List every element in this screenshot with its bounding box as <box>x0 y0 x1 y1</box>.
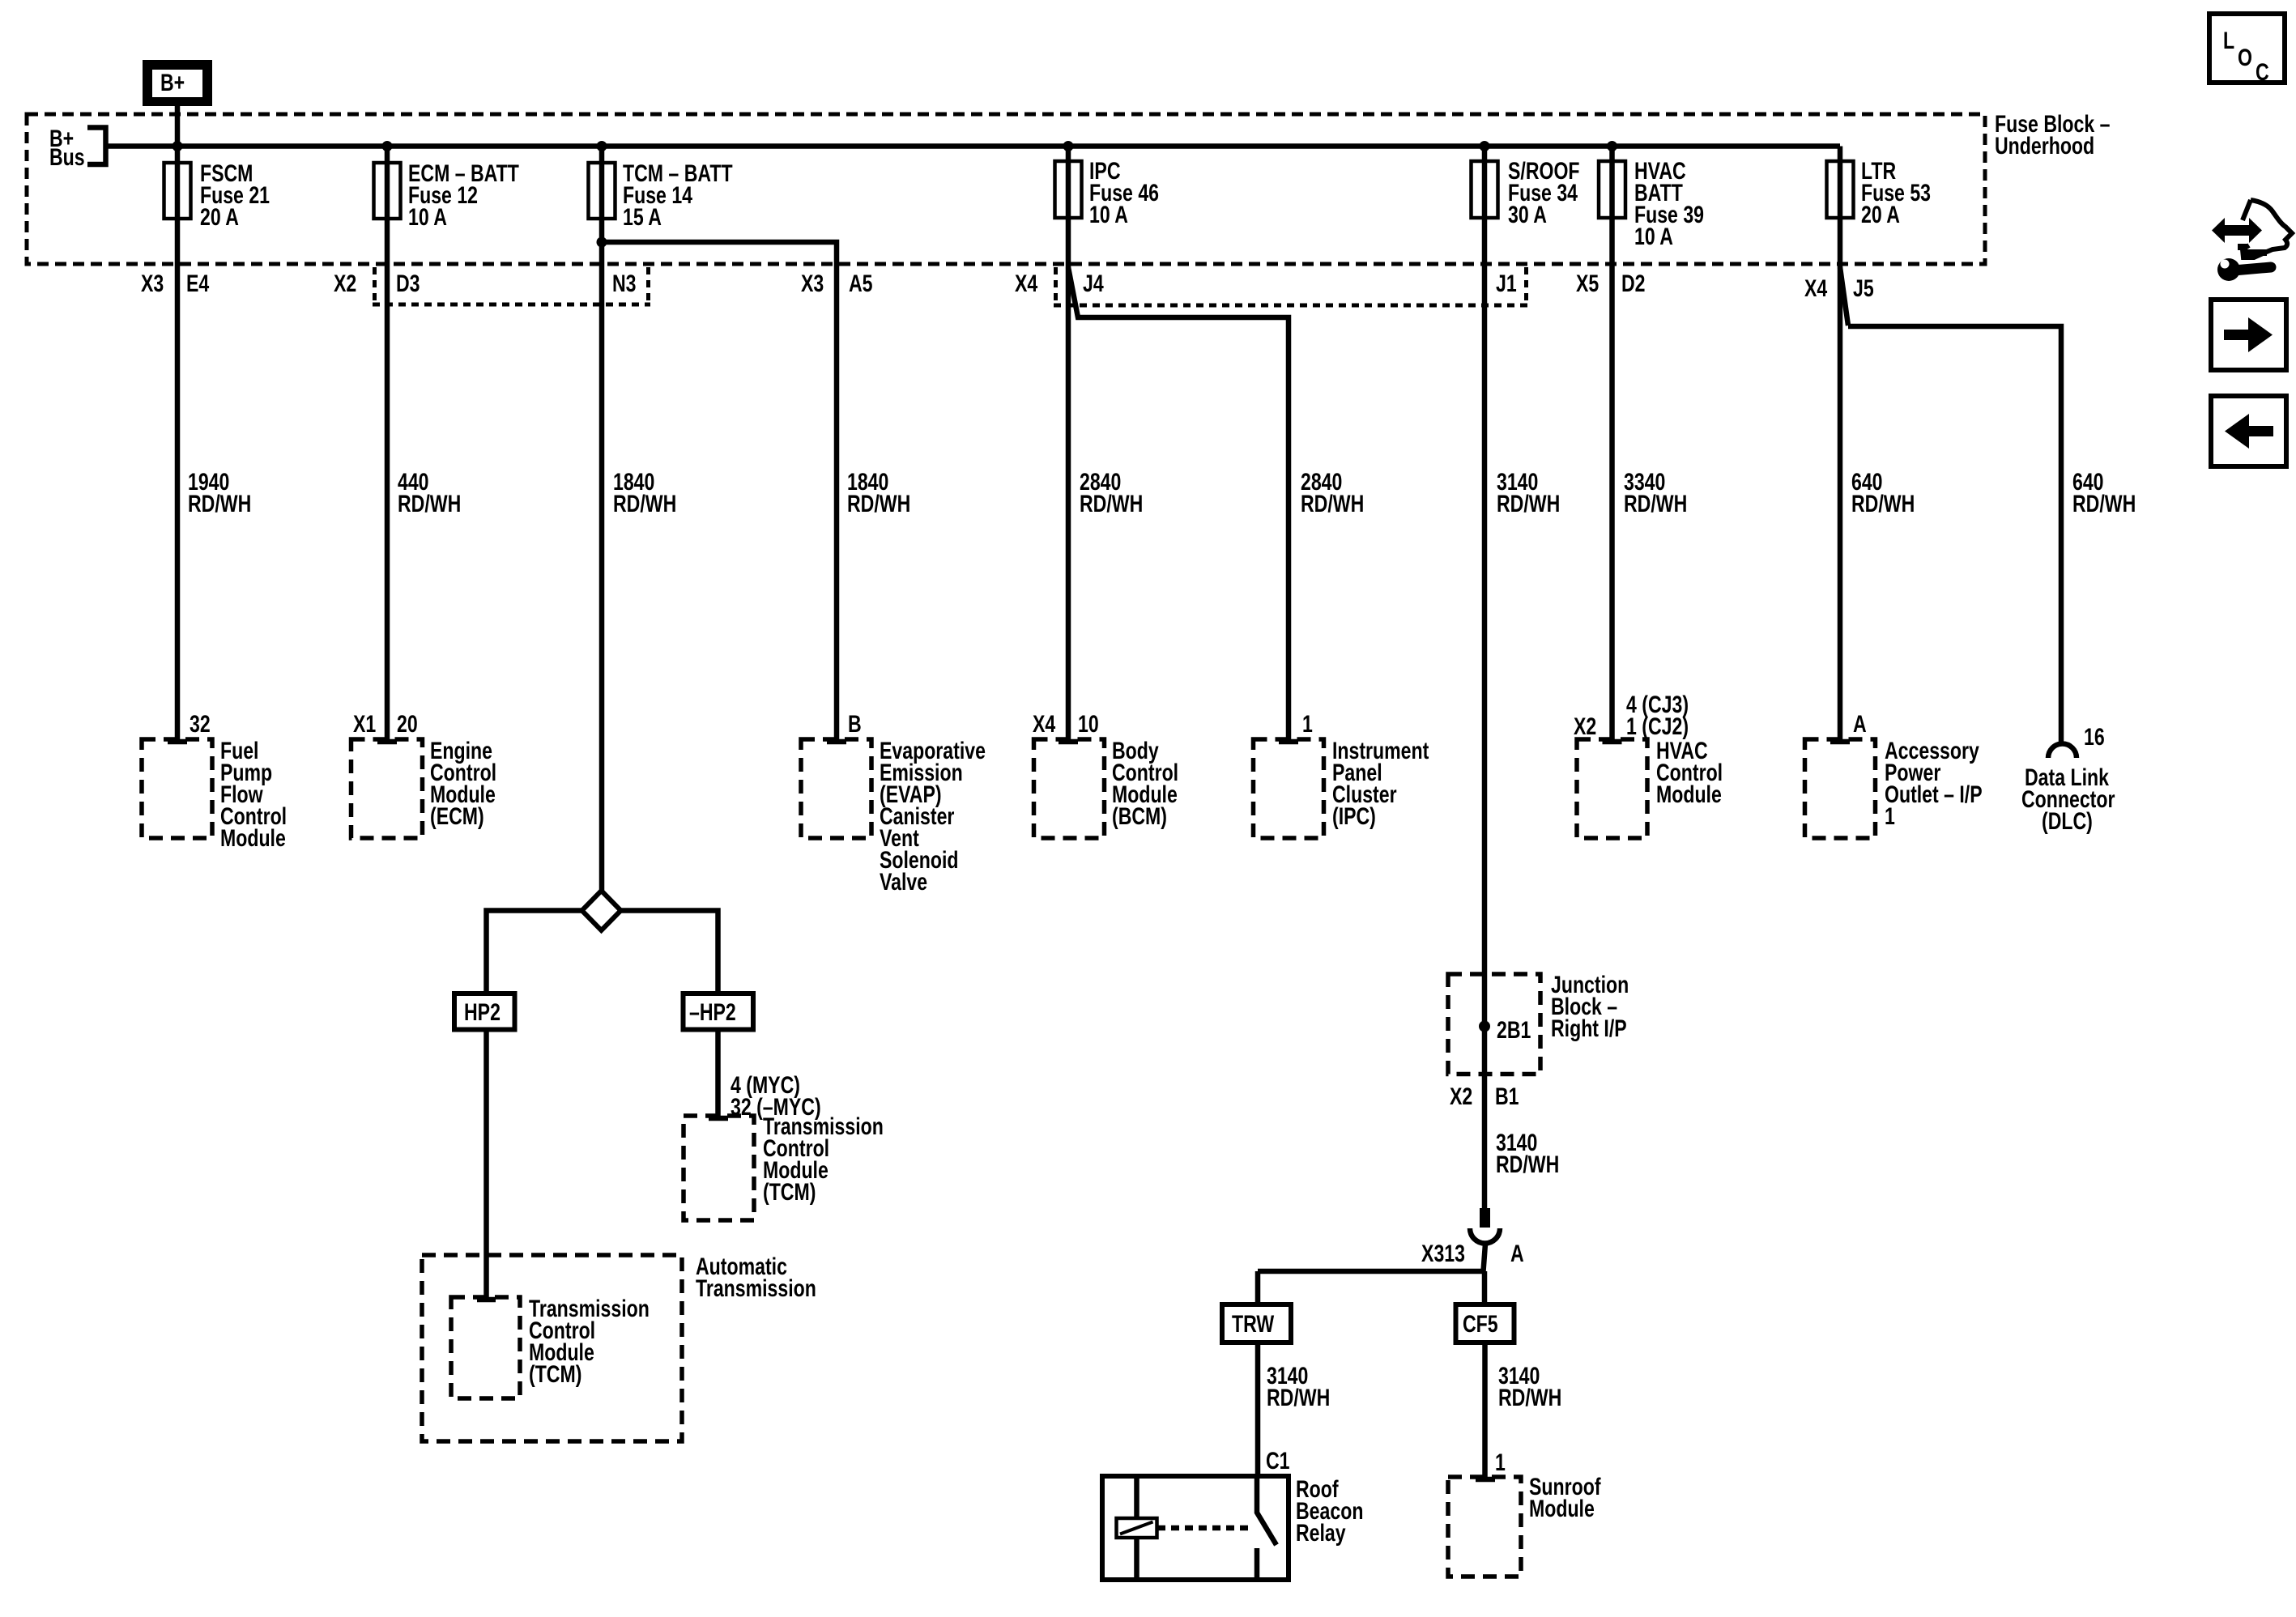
wire IPC 2840 RD/WH <box>1066 147 1071 743</box>
wire -HP2 to TCM <box>715 1030 721 1119</box>
wire IPC cluster branch <box>1068 267 1289 742</box>
wire FSCM 1940 RD/WH <box>175 147 181 743</box>
svg-text:2B1: 2B1 <box>1497 1016 1531 1044</box>
svg-text:RD/WH: RD/WH <box>847 490 910 517</box>
svg-text:Right I/P: Right I/P <box>1551 1015 1627 1042</box>
svg-text:30 A: 30 A <box>1508 201 1547 228</box>
svg-text:Bus: Bus <box>49 143 85 171</box>
svg-text:RD/WH: RD/WH <box>613 490 676 517</box>
label Fuse Block - Underhood <box>1995 110 2111 160</box>
svg-text:10: 10 <box>1078 710 1099 738</box>
svg-text:L: L <box>2223 27 2234 54</box>
svg-text:20 A: 20 A <box>200 203 239 231</box>
pin X2 D3 <box>334 270 420 297</box>
svg-text:N3: N3 <box>612 270 637 297</box>
wire LTR 640 RD/WH <box>1838 147 1843 743</box>
wire label 3140 RD/WH CF5 <box>1498 1362 1561 1411</box>
node TCM branch <box>597 237 607 248</box>
svg-text:A: A <box>1510 1240 1524 1267</box>
svg-text:Module: Module <box>1656 781 1722 808</box>
splice diamond <box>582 891 621 930</box>
wire HVAC 3340 RD/WH <box>1609 147 1615 743</box>
svg-text:X4: X4 <box>1804 274 1827 302</box>
svg-text:X4: X4 <box>1033 710 1055 738</box>
svg-text:X4: X4 <box>1015 270 1037 297</box>
module Engine Control Module (ECM) <box>351 737 497 838</box>
svg-text:RD/WH: RD/WH <box>1496 1151 1559 1178</box>
node TCM tap <box>597 141 607 151</box>
wire X313 branch <box>1258 1269 1485 1274</box>
icon LOC box <box>2209 14 2285 86</box>
module Transmission Control Module (TCM) right <box>684 1113 884 1220</box>
svg-text:(BCM): (BCM) <box>1112 802 1167 830</box>
terminal HP2 <box>454 994 515 1030</box>
svg-text:J5: J5 <box>1853 274 1874 302</box>
svg-text:X3: X3 <box>141 270 164 297</box>
svg-text:10 A: 10 A <box>408 203 447 231</box>
wire DLC branch <box>1840 267 2061 744</box>
svg-text:X2: X2 <box>1574 713 1596 740</box>
svg-text:(TCM): (TCM) <box>529 1360 581 1388</box>
fuse ECM-BATT Fuse 12 <box>374 163 401 219</box>
node ECM tap <box>382 141 393 151</box>
svg-text:(DLC): (DLC) <box>2042 807 2093 835</box>
svg-text:–HP2: –HP2 <box>689 998 736 1026</box>
node HVAC tap <box>1607 141 1617 151</box>
svg-text:CF5: CF5 <box>1463 1310 1498 1338</box>
fuse IPC Fuse 46 <box>1055 161 1082 218</box>
B+ bus wire <box>106 143 1841 149</box>
B+ terminal <box>143 60 212 106</box>
wire TRW down <box>1255 1343 1261 1476</box>
svg-text:A5: A5 <box>849 270 873 297</box>
wire label 3140 RD/WH junction <box>1496 1129 1559 1178</box>
connector sub-box X4/J1 <box>1054 267 1528 305</box>
pin 4 (MYC) 32 (-MYC) <box>731 1071 821 1121</box>
svg-text:16: 16 <box>2084 723 2105 751</box>
automatic transmission dashed box <box>422 1253 816 1441</box>
svg-text:20 A: 20 A <box>1861 201 1900 228</box>
svg-text:B1: B1 <box>1495 1083 1519 1110</box>
module EVAP Canister Vent Solenoid Valve <box>801 737 986 896</box>
node S/ROOF tap <box>1480 141 1490 151</box>
wire TCM 1840 RD/WH <box>599 147 605 891</box>
svg-text:Underhood: Underhood <box>1995 132 2094 160</box>
node IPC tap <box>1063 141 1074 151</box>
fuse FSCM Fuse 21 <box>164 163 191 219</box>
module Body Control Module (BCM) <box>1034 737 1179 838</box>
svg-text:RD/WH: RD/WH <box>1080 490 1143 517</box>
connector DLC half-circle <box>2021 744 2115 835</box>
connector sub-box X2/N3 <box>373 267 650 304</box>
fuse LTR Fuse 53 <box>1827 161 1854 218</box>
svg-text:Outlet – I/P: Outlet – I/P <box>1885 781 1983 808</box>
pin X3 A5 <box>801 270 873 297</box>
svg-text:1: 1 <box>1495 1449 1506 1476</box>
svg-text:Module: Module <box>1529 1495 1595 1522</box>
svg-text:J4: J4 <box>1083 270 1104 297</box>
wire labels row 1 <box>188 468 251 517</box>
svg-text:1: 1 <box>1885 802 1895 830</box>
svg-text:X313: X313 <box>1421 1240 1465 1267</box>
svg-text:C1: C1 <box>1266 1447 1290 1474</box>
svg-text:RD/WH: RD/WH <box>398 490 461 517</box>
svg-text:B: B <box>848 710 862 738</box>
svg-text:C: C <box>2256 58 2269 86</box>
module Fuel Pump Flow Control Module <box>142 737 287 852</box>
wire CF5 down <box>1482 1343 1488 1479</box>
svg-text:Module: Module <box>220 824 286 852</box>
wire ECM 440 RD/WH <box>385 147 390 743</box>
svg-text:O: O <box>2238 44 2252 71</box>
wire EVAP branch <box>602 242 837 742</box>
pin X2 B1 <box>1450 1083 1519 1110</box>
pin X5 D2 <box>1576 270 1646 297</box>
svg-text:(TCM): (TCM) <box>763 1178 816 1206</box>
svg-text:RD/WH: RD/WH <box>1624 490 1687 517</box>
svg-text:A: A <box>1853 710 1867 738</box>
wire -HP2 branch right <box>621 911 718 994</box>
svg-text:20: 20 <box>397 710 418 738</box>
svg-text:RD/WH: RD/WH <box>1301 490 1364 517</box>
pin X4 J5 <box>1804 274 1874 302</box>
svg-text:RD/WH: RD/WH <box>1851 490 1915 517</box>
svg-text:HP2: HP2 <box>464 998 501 1026</box>
svg-text:D3: D3 <box>396 270 420 297</box>
svg-text:RD/WH: RD/WH <box>2072 490 2136 517</box>
module Accessory Power Outlet I/P <box>1805 737 1983 838</box>
svg-text:D2: D2 <box>1621 270 1646 297</box>
svg-text:J1: J1 <box>1496 270 1517 297</box>
svg-text:10 A: 10 A <box>1089 201 1128 228</box>
svg-text:RD/WH: RD/WH <box>1267 1384 1330 1411</box>
svg-text:1: 1 <box>1302 710 1313 738</box>
module Instrument Panel Cluster (IPC) <box>1254 737 1429 838</box>
svg-text:Relay: Relay <box>1296 1519 1346 1547</box>
svg-text:(ECM): (ECM) <box>430 802 484 830</box>
svg-text:X3: X3 <box>801 270 824 297</box>
svg-text:X5: X5 <box>1576 270 1599 297</box>
svg-text:10 A: 10 A <box>1634 223 1673 250</box>
svg-text:E4: E4 <box>186 270 209 297</box>
junction block right I/P dashed box <box>1448 971 1629 1074</box>
pin X3 E4 <box>141 270 209 297</box>
pin X4 J4 <box>1015 270 1104 297</box>
svg-text:X2: X2 <box>1450 1083 1472 1110</box>
terminal -HP2 <box>684 994 754 1030</box>
svg-text:(IPC): (IPC) <box>1332 802 1376 830</box>
svg-text:TRW: TRW <box>1232 1310 1275 1338</box>
svg-text:1 (CJ2): 1 (CJ2) <box>1626 713 1689 740</box>
wire HP2 to TCM <box>483 1030 489 1300</box>
fuse block underhood dashed box <box>27 114 1985 264</box>
wire S/ROOF 3140 RD/WH <box>1482 147 1488 1209</box>
icon hand with arrow and wrench <box>2212 200 2292 281</box>
svg-text:15 A: 15 A <box>623 203 662 231</box>
fuse S/ROOF Fuse 34 <box>1472 161 1498 218</box>
connector X313 <box>1421 1208 1524 1271</box>
terminal TRW <box>1222 1304 1291 1343</box>
node 2B1 <box>1479 1021 1490 1032</box>
relay Roof Beacon Relay <box>1102 1475 1363 1580</box>
svg-text:X2: X2 <box>334 270 356 297</box>
svg-text:RD/WH: RD/WH <box>1497 490 1560 517</box>
node FSCM tap <box>173 141 183 151</box>
icon left arrow box <box>2211 396 2286 466</box>
svg-text:Transmission: Transmission <box>696 1274 816 1302</box>
wire B+ drop <box>175 106 181 147</box>
terminal CF5 <box>1456 1304 1514 1343</box>
icon right arrow box <box>2211 300 2286 370</box>
fuse TCM-BATT Fuse 14 <box>589 163 616 219</box>
svg-text:32: 32 <box>190 710 211 738</box>
wire HP2 branch left <box>487 911 582 994</box>
svg-text:RD/WH: RD/WH <box>188 490 251 517</box>
svg-text:X1: X1 <box>353 710 376 738</box>
fuse HVAC BATT Fuse 39 <box>1599 161 1625 218</box>
module Sunroof Module <box>1448 1473 1601 1577</box>
svg-text:B+: B+ <box>160 69 185 96</box>
B+ Bus label <box>49 125 106 171</box>
module HVAC Control Module <box>1577 737 1723 838</box>
svg-text:Valve: Valve <box>880 868 927 896</box>
wire label 3140 RD/WH TRW <box>1267 1362 1330 1411</box>
svg-text:RD/WH: RD/WH <box>1498 1384 1561 1411</box>
module Transmission Control Module (TCM) left <box>451 1295 650 1398</box>
